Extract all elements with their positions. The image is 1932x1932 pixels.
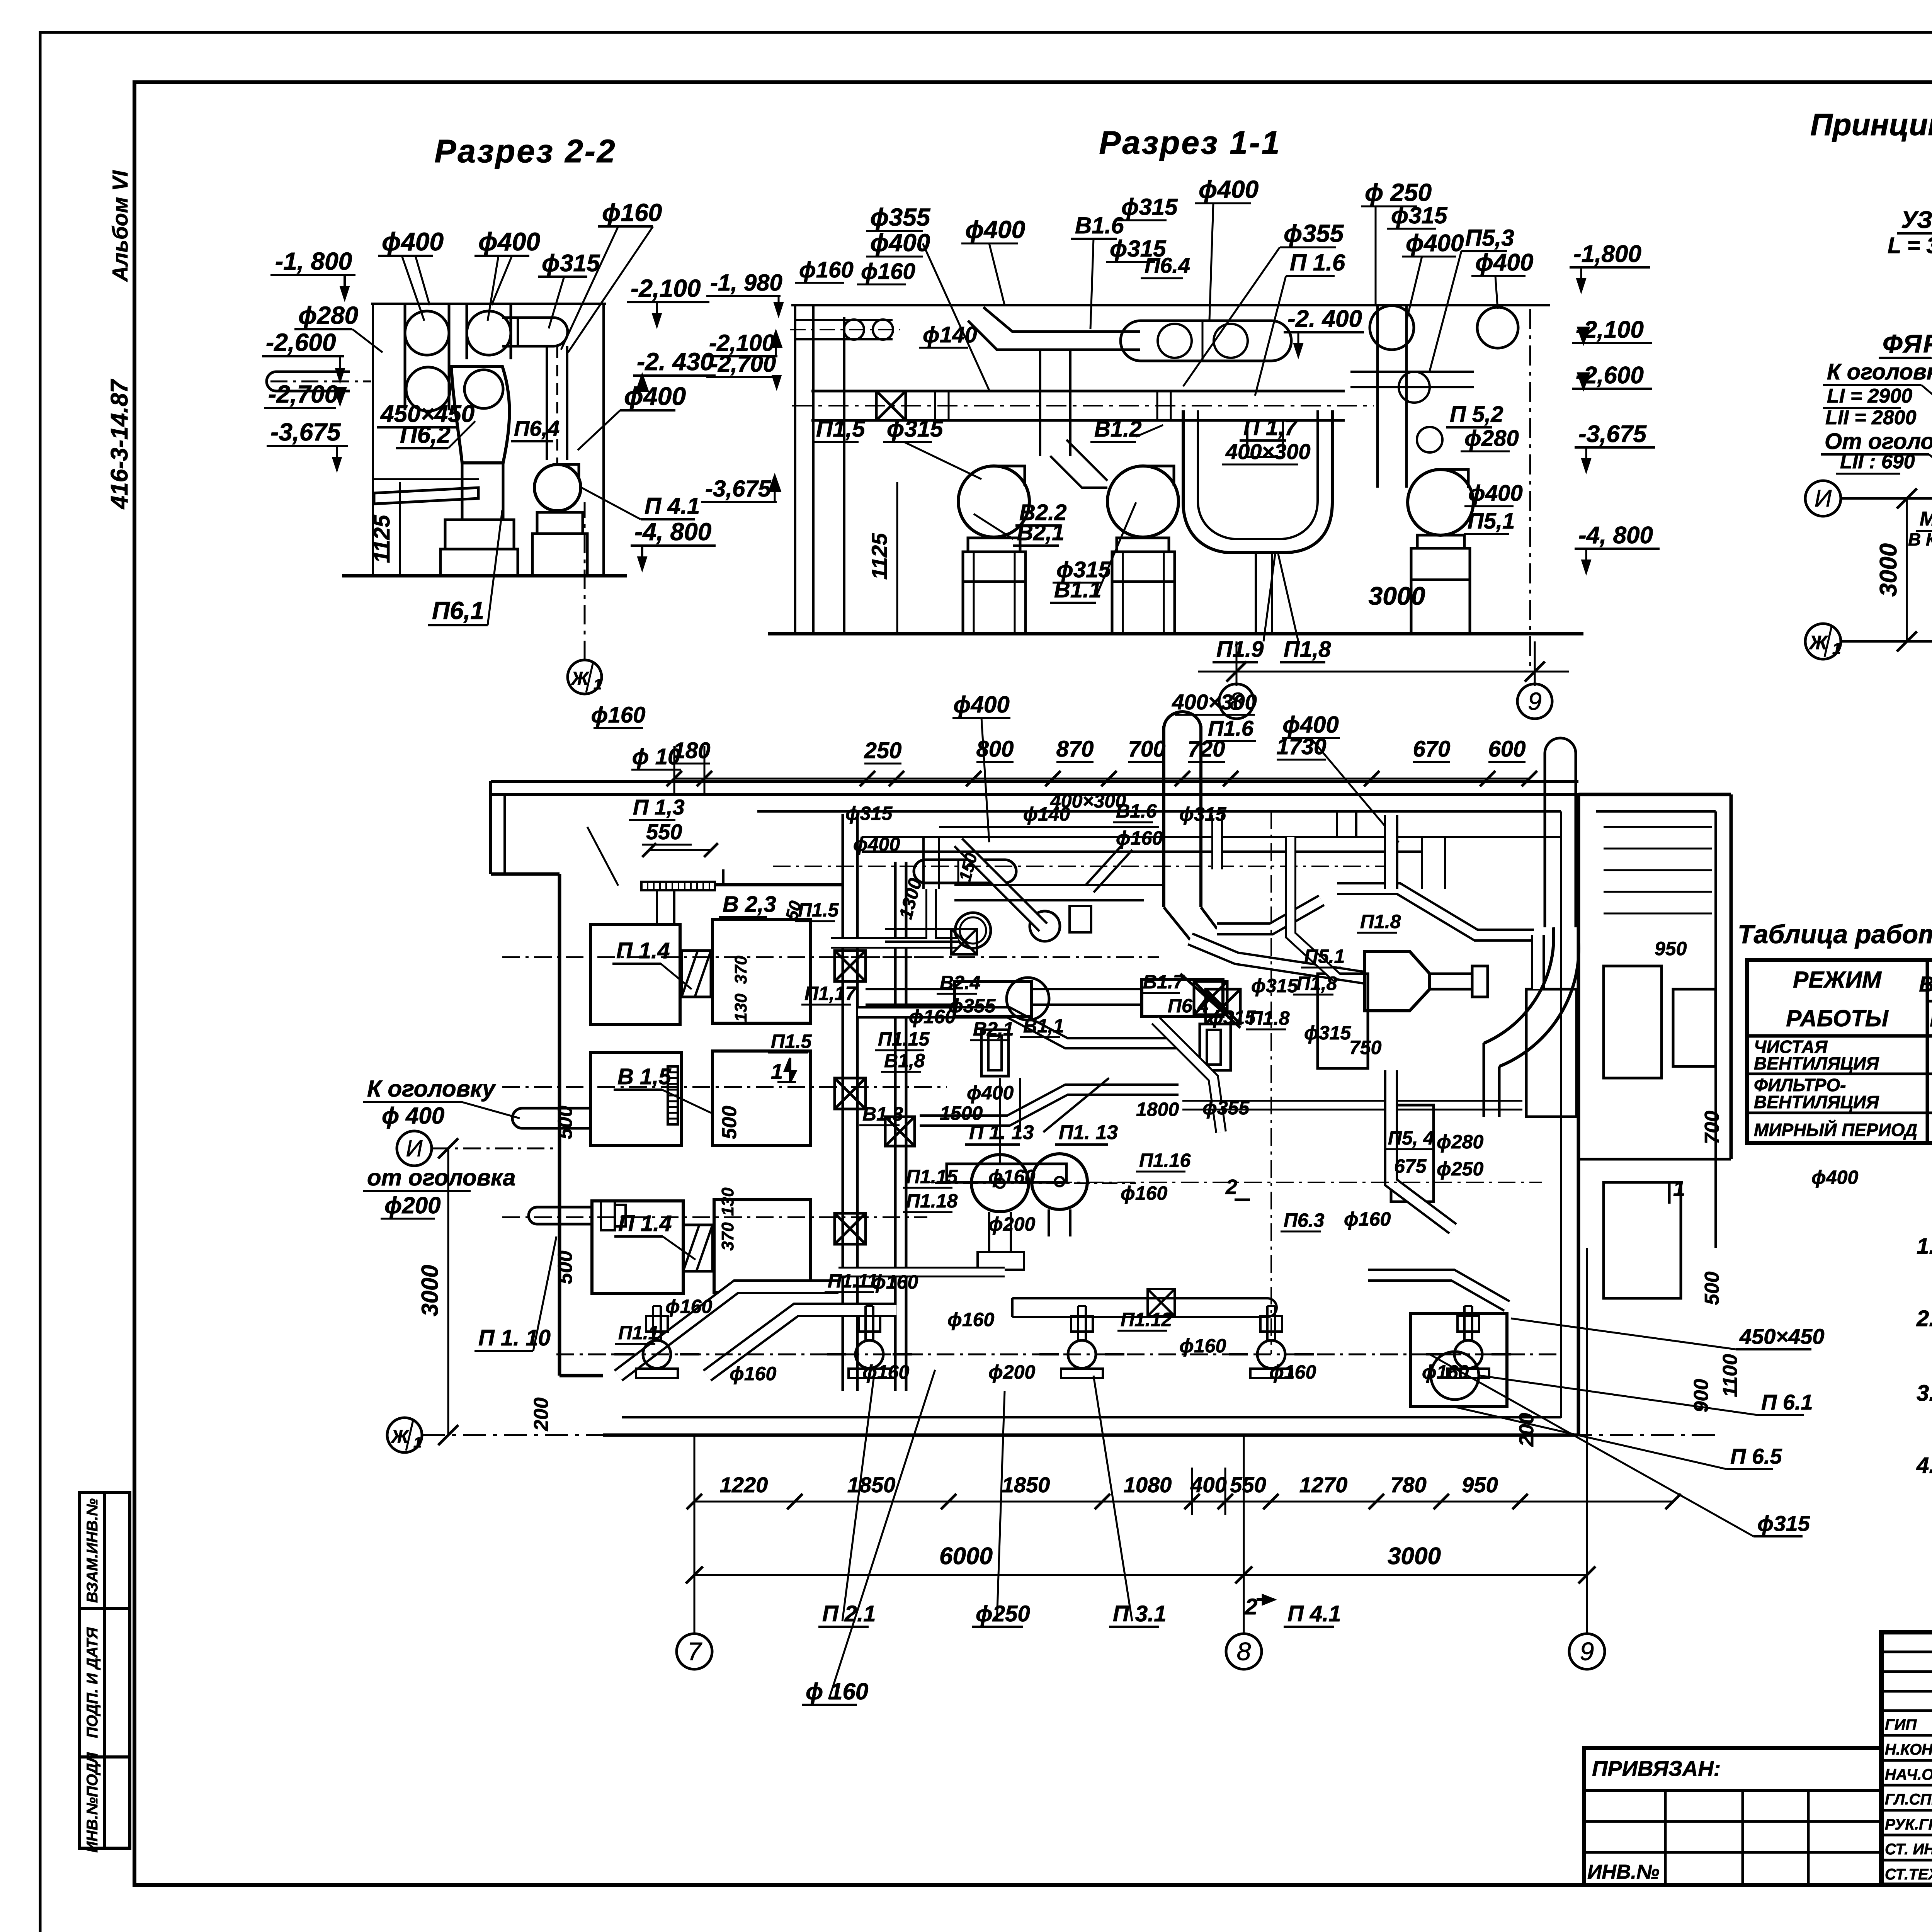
svg-text:П1,17: П1,17 bbox=[804, 983, 857, 1004]
svg-text:ИНВ.№: ИНВ.№ bbox=[1587, 1861, 1660, 1883]
fan П4.1 bbox=[534, 464, 581, 511]
svg-text:600: 600 bbox=[1488, 736, 1526, 762]
pipe от оголовка bbox=[529, 1207, 592, 1224]
svg-text:ϕ140: ϕ140 bbox=[923, 322, 977, 347]
svg-text:ВЗАМ.ИНВ.№: ВЗАМ.ИНВ.№ bbox=[84, 1498, 101, 1603]
svg-text:ФЯР: ФЯР bbox=[1883, 329, 1932, 358]
svg-text:П 1. 13: П 1. 13 bbox=[969, 1121, 1034, 1144]
dim 1125 (1-1) bbox=[896, 482, 898, 634]
duct cylinder B bbox=[466, 305, 468, 359]
svg-text:ϕ315: ϕ315 bbox=[1391, 202, 1448, 228]
svg-text:П1.5: П1.5 bbox=[798, 899, 839, 921]
svg-text:500: 500 bbox=[718, 1106, 741, 1139]
svg-text:В1.7: В1.7 bbox=[1143, 971, 1185, 993]
bottom fan at 3290 bbox=[1257, 1340, 1285, 1368]
svg-text:ВЕНТИЛЯЦИЯ: ВЕНТИЛЯЦИЯ bbox=[1754, 1092, 1879, 1112]
svg-text:ГЛ.СПЕЦ.: ГЛ.СПЕЦ. bbox=[1885, 1791, 1932, 1808]
svg-text:П1.15: П1.15 bbox=[906, 1166, 958, 1187]
svg-text:670: 670 bbox=[1413, 736, 1451, 762]
svg-text:ϕ400: ϕ400 bbox=[478, 227, 540, 256]
svg-text:ϕ160: ϕ160 bbox=[1269, 1361, 1316, 1383]
svg-text:-1,800: -1,800 bbox=[1573, 241, 1641, 267]
axis 9 (plan) bbox=[1569, 1634, 1605, 1669]
B2.4 box bbox=[954, 981, 1032, 1016]
svg-text:1: 1 bbox=[771, 1059, 783, 1083]
svg-text:ϕ355: ϕ355 bbox=[1284, 219, 1344, 247]
svg-text:СТ. ИНЖ: СТ. ИНЖ bbox=[1885, 1841, 1932, 1858]
svg-text:1125: 1125 bbox=[369, 515, 395, 563]
svg-text:130: 130 bbox=[718, 1187, 737, 1216]
svg-text:В1,1: В1,1 bbox=[1023, 1015, 1064, 1037]
svg-text:ϕ400: ϕ400 bbox=[853, 833, 900, 855]
svg-text:СТ.ТЕХН.: СТ.ТЕХН. bbox=[1885, 1866, 1932, 1883]
svg-text:Альбом VI: Альбом VI bbox=[108, 170, 132, 282]
bottom fan at 2250 bbox=[855, 1340, 883, 1368]
svg-text:ϕ160: ϕ160 bbox=[871, 1271, 918, 1293]
svg-text:П6,1: П6,1 bbox=[432, 597, 484, 624]
svg-text:П 3.1: П 3.1 bbox=[1113, 1601, 1166, 1626]
svg-text:200: 200 bbox=[1515, 1413, 1538, 1447]
plan outer walls bbox=[491, 780, 1578, 783]
svg-text:500: 500 bbox=[554, 1251, 577, 1284]
pedestal inner lines bbox=[963, 580, 1026, 583]
axis 8 bbox=[1219, 684, 1254, 719]
svg-text:ϕ160: ϕ160 bbox=[591, 702, 646, 728]
svg-text:ИНВ.№ПОДЛ: ИНВ.№ПОДЛ bbox=[84, 1752, 101, 1853]
svg-text:К оголовку: К оголовку bbox=[1827, 359, 1932, 384]
svg-text:ϕ355: ϕ355 bbox=[1202, 1097, 1250, 1119]
elbow duct lower bbox=[1050, 456, 1107, 488]
svg-text:-3,675: -3,675 bbox=[1578, 421, 1647, 447]
svg-text:LI = 2900: LI = 2900 bbox=[1827, 385, 1912, 407]
svg-text:П1,5: П1,5 bbox=[816, 416, 866, 442]
diagonal duct center bbox=[958, 842, 1043, 927]
svg-text:П 1.6: П 1.6 bbox=[1290, 250, 1345, 276]
svg-text:П5, 4: П5, 4 bbox=[1388, 1127, 1434, 1149]
svg-text:МЗС- 1: МЗС- 1 bbox=[1920, 508, 1932, 530]
svg-text:П 4.1: П 4.1 bbox=[645, 493, 700, 519]
svg-text:1800: 1800 bbox=[1136, 1099, 1179, 1120]
svg-text:7: 7 bbox=[687, 1637, 702, 1665]
svg-text:ϕ355: ϕ355 bbox=[949, 995, 996, 1017]
right duct vertical lower bbox=[1391, 1070, 1453, 1229]
svg-text:В1.6: В1.6 bbox=[1075, 213, 1124, 238]
funnel duct to П1.13 bbox=[1000, 1078, 1020, 1163]
svg-text:В1.3: В1.3 bbox=[862, 1103, 903, 1125]
svg-text:Разрез 2-2: Разрез 2-2 bbox=[434, 133, 616, 169]
svg-text:ПОДП. И ДАТЯ: ПОДП. И ДАТЯ bbox=[84, 1627, 101, 1738]
ceiling line bbox=[791, 304, 1550, 306]
svg-text:В1.1: В1.1 bbox=[1054, 577, 1102, 602]
table grid bbox=[1747, 960, 1932, 1143]
svg-text:П 4.1: П 4.1 bbox=[1287, 1601, 1341, 1626]
duct п1.3 horizontal bbox=[715, 883, 842, 886]
elbow duct upper left bbox=[923, 837, 939, 889]
duct joints bbox=[934, 391, 936, 420]
big bend duct top right bbox=[1484, 927, 1554, 1043]
svg-text:П1.6: П1.6 bbox=[1208, 716, 1254, 740]
svg-text:-3,675: -3,675 bbox=[270, 418, 341, 446]
svg-text:МИРНЫЙ ПЕРИОД: МИРНЫЙ ПЕРИОД bbox=[1754, 1120, 1917, 1140]
right annex walls bbox=[1578, 793, 1731, 796]
margin stamp boxes bbox=[80, 1493, 130, 1848]
svg-text:Н.КОНТР.: Н.КОНТР. bbox=[1885, 1741, 1932, 1758]
section 2-2 ceiling bbox=[371, 303, 606, 305]
axis 8 (plan) bbox=[1226, 1634, 1262, 1669]
svg-text:416-3-14.87: 416-3-14.87 bbox=[106, 379, 133, 510]
svg-text:370: 370 bbox=[718, 1222, 737, 1251]
round duct ф315 bbox=[955, 913, 991, 948]
machine П6.2 funnel body bbox=[451, 366, 509, 463]
right chain line bbox=[1529, 309, 1531, 672]
svg-text:1. ГЕРМОКЛАПАН N 5 ОТКРЫТ П: 1. ГЕРМОКЛАПАН N 5 ОТКРЫТ ПРИ ЗАВАЛЕ. ВО… bbox=[1917, 1234, 1932, 1259]
svg-text:В2,1: В2,1 bbox=[973, 1018, 1014, 1040]
svg-text:ϕ355: ϕ355 bbox=[870, 203, 931, 231]
svg-text:ВЕНТИЛЯТОРЫ СИСТЕМ: ВЕНТИЛЯТОРЫ СИСТЕМ bbox=[1919, 972, 1932, 996]
svg-text:ϕ160: ϕ160 bbox=[909, 1006, 956, 1027]
svg-text:П1.15: П1.15 bbox=[878, 1028, 930, 1050]
roof flange comb bbox=[641, 882, 715, 890]
svg-text:от оголовка: от оголовка bbox=[367, 1165, 515, 1190]
svg-text:1850: 1850 bbox=[1002, 1473, 1050, 1497]
svg-text:700: 700 bbox=[1701, 1111, 1723, 1145]
svg-text:ГИП: ГИП bbox=[1885, 1716, 1917, 1733]
svg-text:3000: 3000 bbox=[1875, 543, 1902, 597]
svg-text:3. ЗАСЛОНКА N 13 ПРИКРЫВАЕТ: 3. ЗАСЛОНКА N 13 ПРИКРЫВАЕТСЯ ПРИ ВЕНТИЛ… bbox=[1917, 1381, 1932, 1406]
svg-text:1500: 1500 bbox=[940, 1102, 983, 1124]
lower-left diagonal ducts bbox=[618, 1287, 838, 1376]
svg-text:ϕ280: ϕ280 bbox=[1464, 426, 1519, 451]
svg-text:ϕ400: ϕ400 bbox=[965, 216, 1025, 243]
right vertical duct bbox=[1378, 306, 1406, 488]
svg-text:LII = 2800: LII = 2800 bbox=[1825, 406, 1917, 429]
bottom dim row 2 bbox=[694, 1574, 1587, 1576]
svg-text:ϕ400: ϕ400 bbox=[1282, 712, 1339, 738]
svg-text:П1.8: П1.8 bbox=[1249, 1007, 1290, 1029]
svg-text:ϕ400: ϕ400 bbox=[953, 692, 1010, 718]
svg-text:В2,1: В2,1 bbox=[1017, 520, 1065, 545]
dim 3000 (section 1-1) bbox=[1236, 641, 1238, 686]
left pipe stub bbox=[267, 372, 350, 391]
svg-text:130: 130 bbox=[731, 993, 750, 1022]
svg-text:750: 750 bbox=[1349, 1037, 1382, 1058]
svg-text:-2. 430: -2. 430 bbox=[637, 348, 714, 376]
svg-text:П1.16: П1.16 bbox=[1139, 1150, 1191, 1171]
title block bbox=[1881, 1632, 1932, 1885]
tank П1.7 bbox=[1183, 410, 1332, 553]
duct X damper bbox=[876, 391, 906, 420]
svg-text:ϕ 160: ϕ 160 bbox=[806, 1679, 868, 1704]
dim 1125 vertical bbox=[399, 482, 401, 576]
svg-text:-2,700: -2,700 bbox=[268, 380, 338, 408]
right horizontal pipe bbox=[1350, 372, 1474, 387]
svg-text:550: 550 bbox=[1230, 1473, 1266, 1497]
svg-text:ϕ315: ϕ315 bbox=[887, 416, 944, 442]
svg-text:ВЕНТИЛЯЦИЯ: ВЕНТИЛЯЦИЯ bbox=[1754, 1053, 1879, 1073]
svg-text:П6.3: П6.3 bbox=[1284, 1209, 1325, 1231]
svg-text:В1.2: В1.2 bbox=[1094, 417, 1142, 442]
axis Ж/1 (plan) bbox=[387, 1418, 422, 1452]
svg-text:550: 550 bbox=[646, 820, 682, 844]
axis 9 bbox=[1517, 684, 1552, 719]
svg-text:1: 1 bbox=[1832, 640, 1841, 657]
svg-text:ϕ250: ϕ250 bbox=[976, 1601, 1030, 1626]
oval silencer bbox=[1121, 321, 1291, 361]
svg-text:500: 500 bbox=[554, 1106, 577, 1139]
svg-text:2: 2 bbox=[1245, 1594, 1257, 1619]
svg-text:-1, 800: -1, 800 bbox=[275, 247, 352, 275]
svg-text:ϕ315: ϕ315 bbox=[845, 803, 893, 824]
svg-text:ϕ160: ϕ160 bbox=[1121, 1182, 1167, 1204]
privyazan block bbox=[1584, 1748, 1881, 1885]
svg-text:ϕ400: ϕ400 bbox=[1468, 481, 1523, 506]
svg-text:1: 1 bbox=[413, 1435, 422, 1451]
dim 3000 left bbox=[447, 1148, 449, 1435]
svg-text:ϕ160: ϕ160 bbox=[861, 259, 915, 284]
svg-text:П6.4: П6.4 bbox=[1145, 253, 1190, 277]
duct diagonal to В1.7 bbox=[1217, 900, 1321, 929]
svg-text:ϕ315: ϕ315 bbox=[1251, 975, 1298, 997]
bottom fan at 1700 bbox=[643, 1340, 671, 1368]
axis Ж/1 (scheme) bbox=[1805, 624, 1841, 659]
svg-text:ϕ 400: ϕ 400 bbox=[382, 1103, 444, 1129]
svg-text:П1,8: П1,8 bbox=[1284, 637, 1331, 662]
svg-text:1100: 1100 bbox=[1719, 1354, 1742, 1397]
svg-text:1: 1 bbox=[1673, 1176, 1685, 1201]
svg-text:3000: 3000 bbox=[417, 1265, 443, 1316]
svg-text:700: 700 bbox=[1128, 736, 1166, 762]
svg-text:ϕ315: ϕ315 bbox=[542, 250, 600, 277]
svg-text:Принципиальная схема работы: Принципиальная схема работы вентиляции у… bbox=[1810, 107, 1932, 142]
dash-dot through right bbox=[927, 1182, 1542, 1183]
svg-text:П 5,2: П 5,2 bbox=[1450, 402, 1503, 427]
svg-text:250: 250 bbox=[864, 738, 902, 763]
vertical duct V2 bbox=[894, 862, 897, 1391]
svg-text:-4, 800: -4, 800 bbox=[1578, 522, 1653, 549]
svg-text:870: 870 bbox=[1056, 736, 1094, 762]
rounded tall duct right (stair area) bbox=[1545, 753, 1576, 927]
tall duct 400x300 П1.6 bbox=[1164, 726, 1201, 907]
svg-text:ϕ160: ϕ160 bbox=[799, 257, 854, 282]
svg-text:1850: 1850 bbox=[847, 1473, 896, 1497]
axis legs bbox=[694, 1435, 696, 1634]
svg-text:П6,2: П6,2 bbox=[400, 422, 451, 448]
svg-text:-1, 980: -1, 980 bbox=[710, 270, 782, 296]
B2.1 pedestal boxes bbox=[981, 1030, 1009, 1076]
svg-text:950: 950 bbox=[1462, 1473, 1498, 1497]
duct cylinder A bbox=[404, 305, 406, 410]
svg-text:3000: 3000 bbox=[1369, 582, 1425, 610]
svg-text:ϕ200: ϕ200 bbox=[988, 1361, 1035, 1383]
svg-text:П 1.4: П 1.4 bbox=[616, 938, 670, 963]
svg-text:-2,700: -2,700 bbox=[710, 351, 776, 377]
bottom fan at 2800 bbox=[1068, 1340, 1096, 1368]
svg-text:П 2.1: П 2.1 bbox=[822, 1601, 876, 1626]
svg-text:450×450: 450×450 bbox=[1739, 1324, 1825, 1349]
svg-text:П1. 13: П1. 13 bbox=[1059, 1121, 1118, 1144]
svg-text:ϕ315: ϕ315 bbox=[1179, 803, 1226, 825]
svg-text:3000: 3000 bbox=[1388, 1543, 1441, 1570]
svg-text:П1,8: П1,8 bbox=[1296, 973, 1337, 994]
svg-text:ϕ160: ϕ160 bbox=[1179, 1335, 1226, 1357]
drop duct left fan bbox=[1040, 350, 1070, 456]
duct drop to fan П4.1 bbox=[546, 346, 548, 460]
svg-text:П 1,3: П 1,3 bbox=[633, 795, 685, 819]
section 2-2 right wall bbox=[602, 304, 605, 576]
svg-text:П5.1: П5.1 bbox=[1304, 946, 1345, 967]
axis 7 (plan) bbox=[677, 1634, 712, 1669]
svg-text:И: И bbox=[1815, 485, 1832, 512]
svg-text:ϕ315: ϕ315 bbox=[1304, 1022, 1351, 1044]
svg-text:П1.12: П1.12 bbox=[1121, 1309, 1172, 1330]
svg-text:ϕ280: ϕ280 bbox=[298, 301, 358, 329]
svg-text:-2,600: -2,600 bbox=[266, 328, 336, 356]
stair hatch right annex bbox=[1604, 826, 1712, 828]
svg-text:950: 950 bbox=[1655, 938, 1687, 959]
B1.1 box bbox=[1142, 980, 1223, 1016]
svg-text:400×300: 400×300 bbox=[1225, 439, 1311, 464]
lower horizontal run bbox=[556, 1354, 1561, 1355]
svg-text:-2. 400: -2. 400 bbox=[1287, 306, 1362, 332]
extra top band ducts bbox=[939, 826, 1159, 828]
svg-text:9: 9 bbox=[1580, 1637, 1594, 1665]
svg-text:Ж: Ж bbox=[390, 1427, 410, 1447]
svg-text:П5,1: П5,1 bbox=[1468, 509, 1515, 534]
svg-text:УЗС- 8: УЗС- 8 bbox=[1901, 207, 1932, 233]
svg-text:500: 500 bbox=[1701, 1272, 1723, 1305]
diagonal В1.1 duct bbox=[1155, 1020, 1221, 1132]
svg-text:ϕ280: ϕ280 bbox=[1437, 1131, 1483, 1153]
section mark 1 up bbox=[777, 1058, 796, 1082]
svg-text:П1.11: П1.11 bbox=[828, 1270, 878, 1292]
svg-text:400: 400 bbox=[1190, 1473, 1226, 1497]
svg-text:ϕ315: ϕ315 bbox=[1757, 1511, 1810, 1536]
svg-text:П1.9: П1.9 bbox=[1216, 637, 1264, 662]
svg-text:4. ЗАСЛОНКА N 16 ПРЕДНАЗНАЧЕ: 4. ЗАСЛОНКА N 16 ПРЕДНАЗНАЧЕНА ДЛЯ РЕГУЛ… bbox=[1916, 1453, 1932, 1478]
svg-text:РУК.ГР.: РУК.ГР. bbox=[1885, 1816, 1932, 1833]
bottom dim row 1 bbox=[694, 1501, 1673, 1503]
svg-text:ϕ200: ϕ200 bbox=[988, 1213, 1035, 1235]
svg-text:ϕ400: ϕ400 bbox=[382, 227, 444, 256]
svg-text:НАЧ.ОТД.: НАЧ.ОТД. bbox=[1885, 1766, 1932, 1783]
box П1.4 bbox=[590, 924, 680, 1025]
svg-text:П1.8: П1.8 bbox=[1360, 911, 1401, 932]
right side boxes bbox=[1318, 974, 1368, 1068]
svg-text:ϕ400: ϕ400 bbox=[1406, 230, 1464, 257]
svg-text:ϕ250: ϕ250 bbox=[1437, 1158, 1483, 1180]
axis Ж/1 (section 2-2) bbox=[568, 660, 602, 694]
svg-text:1: 1 bbox=[594, 677, 602, 693]
axis И (scheme) bbox=[1805, 481, 1841, 516]
svg-text:В КОРОБКЕ: В КОРОБКЕ bbox=[1908, 529, 1932, 549]
svg-text:ϕ200: ϕ200 bbox=[384, 1192, 441, 1218]
svg-text:П 1. 10: П 1. 10 bbox=[478, 1325, 551, 1350]
main horizontal duct bbox=[811, 390, 1345, 393]
svg-text:ϕ160: ϕ160 bbox=[862, 1361, 909, 1383]
svg-text:ϕ400: ϕ400 bbox=[1811, 1167, 1858, 1188]
svg-text:9: 9 bbox=[1528, 687, 1542, 715]
svg-text:П 1,7: П 1,7 bbox=[1243, 415, 1298, 440]
filter П1.4 bbox=[682, 951, 711, 997]
fan B2.1 bbox=[958, 466, 1029, 537]
boxes П1.4 lower row bbox=[592, 1201, 683, 1294]
svg-text:П 6.1: П 6.1 bbox=[1761, 1390, 1813, 1414]
svg-text:В2.4: В2.4 bbox=[940, 972, 981, 993]
horizontal duct with round cap bbox=[502, 318, 568, 346]
bottom fan at 3800 bbox=[1454, 1340, 1482, 1368]
annex lower walls bbox=[1578, 1158, 1731, 1161]
svg-text:400×300: 400×300 bbox=[1050, 790, 1126, 812]
svg-text:1080: 1080 bbox=[1124, 1473, 1172, 1497]
svg-text:Таблица работы вентиляторов, г: Таблица работы вентиляторов, гермоклапан… bbox=[1738, 920, 1932, 949]
svg-text:ϕ160: ϕ160 bbox=[988, 1166, 1035, 1187]
svg-text:ϕ160: ϕ160 bbox=[730, 1363, 776, 1384]
plan inner top wall line bbox=[757, 810, 1561, 813]
upper duct run bbox=[983, 307, 1140, 332]
svg-text:200: 200 bbox=[530, 1398, 553, 1432]
svg-text:370: 370 bbox=[731, 956, 750, 984]
pipe к оголовку bbox=[512, 1108, 590, 1128]
svg-text:675: 675 bbox=[1394, 1155, 1427, 1177]
svg-text:РЕЖИМ: РЕЖИМ bbox=[1793, 967, 1882, 993]
right circles bbox=[1370, 306, 1414, 350]
round duct ф400 second bbox=[1030, 911, 1060, 941]
svg-text:ϕ400: ϕ400 bbox=[1475, 249, 1533, 276]
svg-text:В1,8: В1,8 bbox=[884, 1050, 925, 1071]
section 2-2 left wall bbox=[372, 304, 374, 576]
svg-text:ϕ160: ϕ160 bbox=[1344, 1208, 1391, 1230]
svg-text:LII : 690: LII : 690 bbox=[1840, 451, 1915, 473]
centerlines equipment rows bbox=[502, 956, 927, 958]
svg-text:Ж: Ж bbox=[570, 668, 590, 689]
svg-text:6000: 6000 bbox=[939, 1543, 993, 1570]
svg-text:П6.4: П6.4 bbox=[1168, 995, 1208, 1017]
left wall columns bbox=[794, 305, 796, 634]
svg-text:ϕ400: ϕ400 bbox=[870, 229, 930, 257]
svg-text:РАБОТЫ: РАБОТЫ bbox=[1786, 1005, 1889, 1031]
left pipe stubs ф160 bbox=[796, 320, 893, 339]
svg-text:П1.18: П1.18 bbox=[906, 1190, 957, 1212]
svg-text:ϕ400: ϕ400 bbox=[1199, 175, 1259, 203]
svg-text:ϕ160: ϕ160 bbox=[665, 1296, 712, 1317]
support jack bbox=[373, 478, 479, 480]
svg-text:1125: 1125 bbox=[867, 533, 891, 580]
svg-text:1270: 1270 bbox=[1299, 1473, 1348, 1497]
fan П5.1 bbox=[1408, 469, 1473, 535]
svg-text:1220: 1220 bbox=[720, 1473, 768, 1497]
oval duct top bbox=[914, 860, 1016, 883]
plan right wall bbox=[1577, 794, 1580, 1435]
svg-text:ϕ315: ϕ315 bbox=[1121, 194, 1178, 220]
svg-text:К оголовку: К оголовку bbox=[367, 1076, 496, 1102]
svg-text:П6,4: П6,4 bbox=[514, 416, 560, 440]
svg-text:-3,675: -3,675 bbox=[705, 476, 772, 502]
horizontal rails center bbox=[866, 988, 954, 990]
svg-text:2. ГЕРМОКЛАПАНЫ N 11 И N: 2. ГЕРМОКЛАПАНЫ N 11 И N 12 ОТКРЫВАЮТСЯ bbox=[1916, 1306, 1932, 1331]
axis И (plan) bbox=[397, 1131, 432, 1166]
cone diffuser П5.1 bbox=[1365, 951, 1430, 1011]
svg-text:L = 3200: L = 3200 bbox=[1888, 233, 1932, 258]
svg-text:И: И bbox=[406, 1135, 423, 1161]
svg-text:-4, 800: -4, 800 bbox=[634, 518, 711, 546]
fans П1.13 pair bbox=[971, 1155, 1029, 1212]
П1.13 lower stubs bbox=[989, 1212, 1011, 1252]
box В2.3 bbox=[713, 920, 810, 1023]
svg-text:ϕ400: ϕ400 bbox=[624, 382, 686, 410]
svg-text:П1: П1 bbox=[1930, 1008, 1932, 1031]
svg-text:П5,3: П5,3 bbox=[1465, 225, 1514, 251]
svg-text:780: 780 bbox=[1390, 1473, 1426, 1497]
